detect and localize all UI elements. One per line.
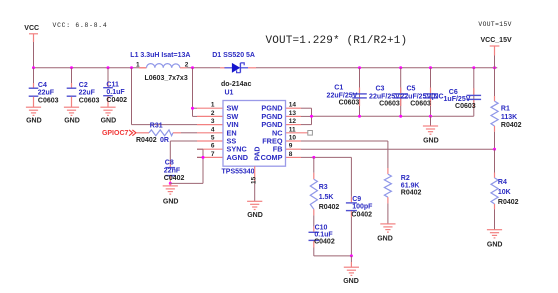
svg-text:R0402: R0402 <box>401 190 422 197</box>
svg-text:GND: GND <box>423 137 439 144</box>
svg-text:C10: C10 <box>315 224 328 231</box>
svg-text:C2: C2 <box>79 82 88 89</box>
wire SS pin5 to C8 <box>170 141 223 162</box>
node FB junction <box>493 148 496 151</box>
ground below C2 <box>64 107 80 124</box>
svg-text:R0402: R0402 <box>501 122 522 129</box>
svg-text:22uF/25V: 22uF/25V <box>327 92 358 99</box>
op-amp U1 TPS55340 body <box>222 90 286 176</box>
svg-text:C9: C9 <box>352 196 361 203</box>
wire VOUT rail <box>256 67 497 69</box>
wire VCC rail <box>34 67 140 69</box>
svg-text:COMP: COMP <box>261 153 283 162</box>
svg-text:C0603: C0603 <box>79 97 100 104</box>
svg-text:AGND: AGND <box>227 153 249 162</box>
svg-text:R0402: R0402 <box>136 137 157 144</box>
svg-text:R31: R31 <box>150 123 163 130</box>
svg-text:R2: R2 <box>401 175 410 182</box>
svg-text:22uF: 22uF <box>38 90 55 97</box>
capacitor C9 <box>346 157 373 256</box>
inductor L1 <box>130 52 190 82</box>
svg-text:VCC: 6.8-8.4: VCC: 6.8-8.4 <box>53 22 108 29</box>
node SW junction <box>191 66 194 69</box>
node VCC/C4 junction <box>32 66 35 69</box>
node PGND/C1 junction <box>358 115 361 118</box>
svg-text:GND: GND <box>26 117 42 124</box>
svg-text:1uF/25V: 1uF/25V <box>444 96 471 103</box>
ground below C4 <box>26 107 42 124</box>
capacitor C1 <box>327 68 367 116</box>
svg-text:5: 5 <box>211 135 215 142</box>
port GPIOC7 <box>102 130 136 137</box>
svg-text:1: 1 <box>136 62 140 69</box>
svg-text:100pF: 100pF <box>352 204 373 211</box>
pin names U1 left <box>227 104 249 162</box>
svg-text:C11: C11 <box>106 81 119 88</box>
svg-text:10: 10 <box>289 135 297 142</box>
svg-text:GND: GND <box>377 235 393 242</box>
svg-text:1: 1 <box>211 102 215 109</box>
node PGND/C5 junction <box>429 115 432 118</box>
capacitor C10 <box>309 215 335 256</box>
diode D1 <box>212 52 256 88</box>
node PGND junction <box>310 115 313 118</box>
pin numbers U1 right <box>289 102 297 158</box>
svg-text:14: 14 <box>289 102 297 109</box>
resistor R2 <box>384 168 421 224</box>
svg-text:C0603: C0603 <box>339 100 360 107</box>
resistor R31 <box>136 123 223 145</box>
svg-text:8: 8 <box>289 151 293 158</box>
svg-text:C0402: C0402 <box>351 211 372 218</box>
svg-text:0R: 0R <box>160 137 169 144</box>
svg-text:U1: U1 <box>225 90 234 97</box>
svg-text:R4: R4 <box>498 179 507 186</box>
node VOUT/C5 junction <box>429 66 432 69</box>
svg-text:11: 11 <box>289 126 296 133</box>
svg-text:C4: C4 <box>38 82 47 89</box>
ground below C5 rail <box>423 116 439 144</box>
capacitor C2 <box>67 68 100 107</box>
node VCC/VIN corner junction <box>130 66 133 69</box>
svg-text:VCC_15V: VCC_15V <box>481 37 512 44</box>
ground below R4 <box>487 230 503 249</box>
wire FREQ net pin10 to R2 <box>301 141 388 168</box>
resistor R4 <box>491 149 519 230</box>
no-connect pin 11 <box>286 131 313 136</box>
svg-text:1.5K: 1.5K <box>319 194 334 201</box>
svg-text:R1: R1 <box>501 106 510 113</box>
power symbol VCC_15V <box>481 37 512 68</box>
svg-text:3: 3 <box>211 118 215 125</box>
power symbol VCC <box>24 25 39 42</box>
svg-text:C0402: C0402 <box>314 238 335 245</box>
svg-text:7: 7 <box>211 151 215 158</box>
pin 15 PAD stub <box>250 166 257 201</box>
svg-text:0.1uF: 0.1uF <box>106 89 125 96</box>
svg-text:L0603_7x7x3: L0603_7x7x3 <box>145 75 188 82</box>
svg-text:C0603: C0603 <box>38 97 59 104</box>
wire VCC rail down to VIN pin 3 <box>132 68 224 125</box>
svg-text:22uF: 22uF <box>79 90 96 97</box>
wire capacitor bottom PGND rail <box>312 115 474 117</box>
pin numbers U1 left <box>211 102 215 158</box>
svg-text:4: 4 <box>211 126 215 133</box>
ground below C9 <box>343 256 359 285</box>
capacitor C11 <box>103 68 127 107</box>
wire VCC stem <box>33 42 35 68</box>
svg-text:C0603: C0603 <box>410 101 431 108</box>
wire FB net pin9 to R1/R4 <box>301 148 495 150</box>
svg-text:PAD: PAD <box>254 147 261 161</box>
capacitor C4 <box>29 68 59 107</box>
node VOUT/C3 junction <box>399 66 402 69</box>
svg-text:15: 15 <box>250 176 257 184</box>
svg-text:R0402: R0402 <box>319 204 340 211</box>
svg-text:L1 3.3uH Isat=13A: L1 3.3uH Isat=13A <box>130 52 190 59</box>
svg-text:C0603: C0603 <box>379 101 400 108</box>
svg-text:C6: C6 <box>449 89 458 96</box>
svg-text:VOUT=1.229* (R1/R2+1): VOUT=1.229* (R1/R2+1) <box>266 35 408 47</box>
node pin1 junction <box>191 107 194 110</box>
svg-text:TPS55340: TPS55340 <box>222 168 255 175</box>
resistor R1 <box>491 68 522 149</box>
node COMP/R3 junction <box>312 156 315 159</box>
svg-text:C0603: C0603 <box>455 103 476 110</box>
node VOUT/R1 junction <box>493 66 496 69</box>
svg-text:C0402: C0402 <box>106 97 127 104</box>
capacitor C6 <box>444 68 482 116</box>
svg-text:13: 13 <box>289 110 297 117</box>
svg-text:GND: GND <box>163 198 179 205</box>
resistor R3 <box>310 157 339 215</box>
svg-text:GPIOC7: GPIOC7 <box>102 130 129 137</box>
node VCC/C11 junction <box>107 66 110 69</box>
pin names U1 right <box>261 104 284 162</box>
svg-text:C3: C3 <box>376 85 385 92</box>
svg-text:VOUT=15V: VOUT=15V <box>478 21 511 28</box>
svg-text:C0402: C0402 <box>164 175 185 182</box>
node PGND/C3 junction <box>399 115 402 118</box>
svg-text:C8: C8 <box>165 160 174 167</box>
svg-text:22uF/25V: 22uF/25V <box>369 94 400 101</box>
svg-text:9: 9 <box>289 143 293 150</box>
ground below C8 <box>163 183 179 205</box>
svg-text:6: 6 <box>211 143 215 150</box>
svg-text:VCC: VCC <box>24 25 39 32</box>
wire COMP net pin8 <box>301 156 351 158</box>
wire L1 to D1 / SW node <box>187 67 221 69</box>
ground below U1 pad <box>247 201 263 219</box>
svg-text:do-214ac: do-214ac <box>221 81 251 88</box>
wire SYNC/AGND pins 6,7 to ground <box>170 149 223 183</box>
svg-text:GND: GND <box>64 117 80 124</box>
node C8 ground junction <box>169 182 172 185</box>
svg-text:GND: GND <box>247 212 263 219</box>
wire C10 bottom to C9 bottom <box>314 255 352 257</box>
svg-text:22uF/25V(NC: 22uF/25V(NC <box>400 94 443 101</box>
capacitor C8 <box>164 160 185 184</box>
wire PGND pins 14,13,12 <box>286 108 312 124</box>
svg-text:GND: GND <box>343 278 359 285</box>
node VOUT/C6 junction <box>472 66 475 69</box>
ground below C11 <box>100 107 116 124</box>
capacitor C5 <box>400 68 443 116</box>
svg-text:22nF: 22nF <box>164 167 181 174</box>
node VCC/C2 junction <box>70 66 73 69</box>
svg-text:D1 SS520 5A: D1 SS520 5A <box>212 52 255 59</box>
svg-text:R3: R3 <box>319 184 328 191</box>
wire SW node down to pins 1,2 <box>193 68 224 117</box>
svg-text:R0402: R0402 <box>498 199 519 206</box>
svg-text:113K: 113K <box>501 114 517 121</box>
svg-text:GND: GND <box>101 117 117 124</box>
svg-text:GND: GND <box>487 241 503 248</box>
capacitor C3 <box>369 68 408 116</box>
node C9/C10 ground junction <box>350 254 353 257</box>
svg-text:C1: C1 <box>334 84 343 91</box>
svg-text:10K: 10K <box>498 189 511 196</box>
node VOUT/C1 junction <box>358 66 361 69</box>
svg-text:C5: C5 <box>407 85 416 92</box>
ground below R2 <box>377 224 395 243</box>
pin stubs 10,9,8 right <box>286 141 302 157</box>
svg-text:12: 12 <box>289 118 297 125</box>
node AGND junction <box>202 156 205 159</box>
svg-text:2: 2 <box>211 110 215 117</box>
